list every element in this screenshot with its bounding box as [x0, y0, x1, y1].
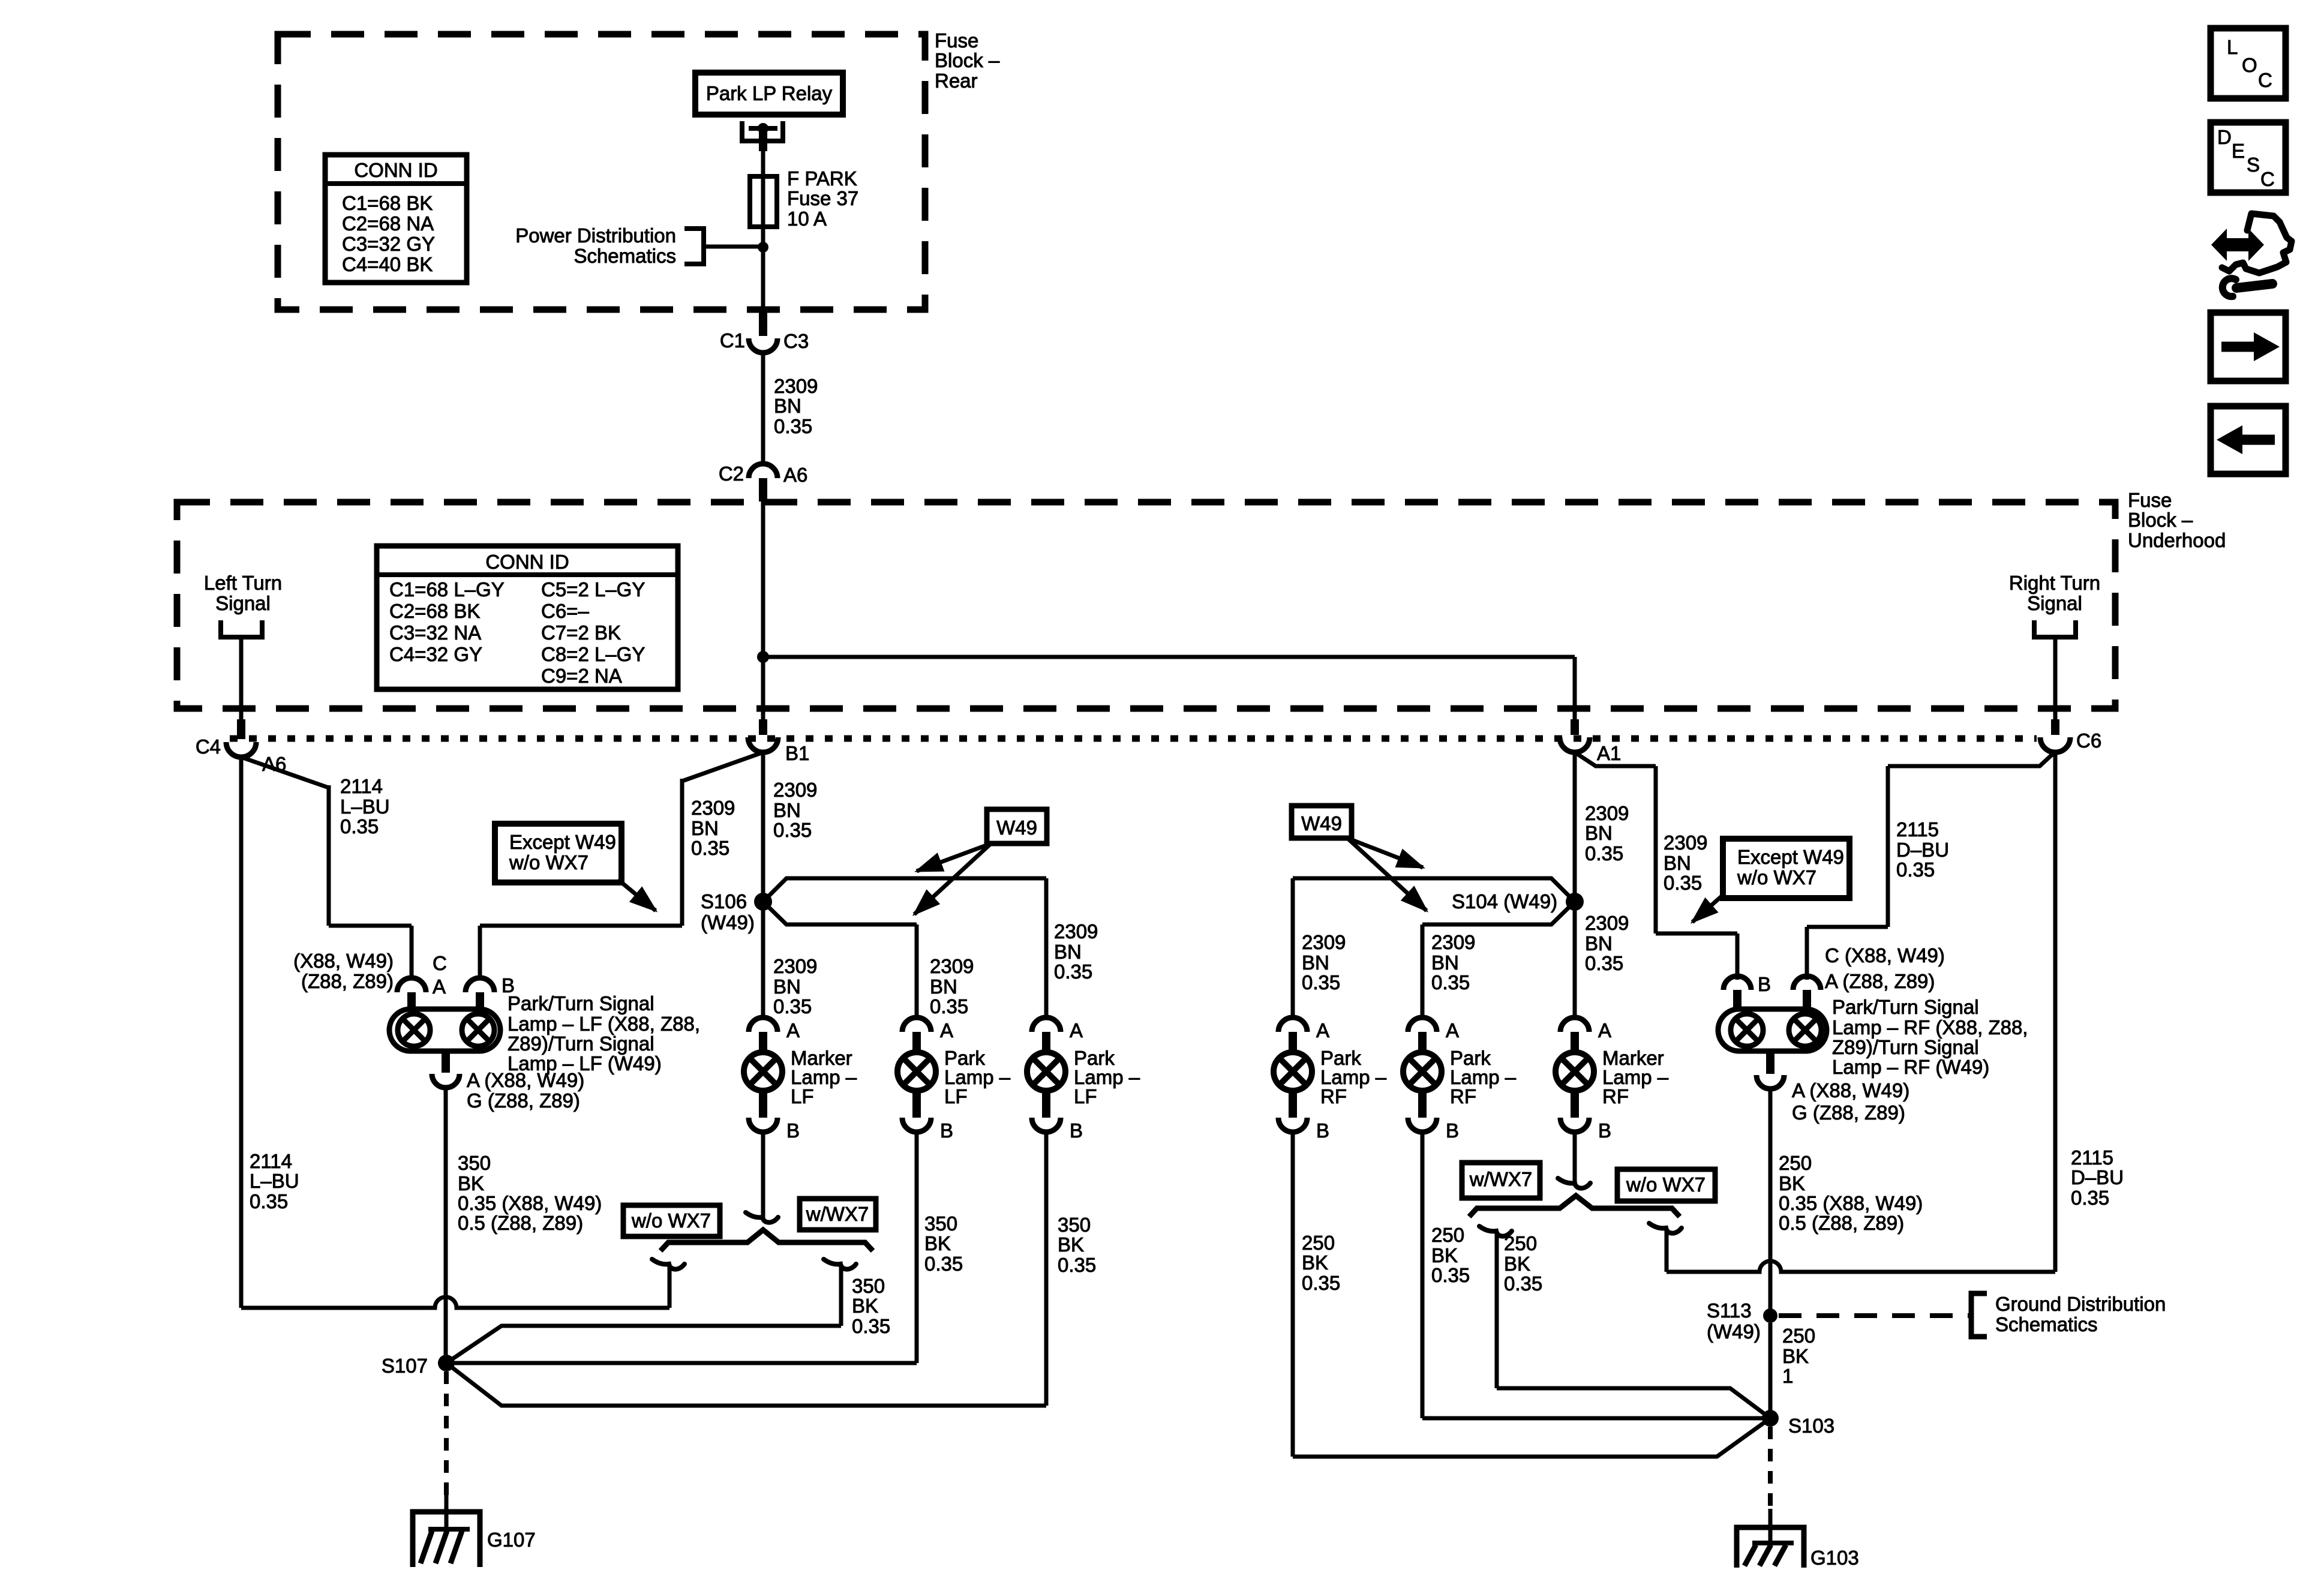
svg-text:w/o WX7: w/o WX7 [1626, 1173, 1706, 1196]
svg-text:0.5 (Z88, Z89): 0.5 (Z88, Z89) [1779, 1212, 1904, 1234]
svg-text:F PARK: F PARK [787, 167, 857, 190]
CONN ID table (underhood fuse block) [377, 546, 678, 689]
svg-text:Except W49: Except W49 [509, 831, 616, 853]
svg-text:BN: BN [1585, 822, 1613, 844]
svg-text:D–BU: D–BU [1896, 839, 1949, 861]
svg-text:2309: 2309 [1664, 831, 1707, 854]
w/o WX7 box (right) [1617, 1169, 1715, 1201]
svg-text:B: B [1598, 1119, 1611, 1142]
wire S107 to w/WX7 path [446, 1326, 841, 1363]
svg-text:0.35: 0.35 [250, 1190, 288, 1212]
wire A1 down to S104 (2309 BN) [1573, 752, 1577, 902]
wire 2114 vertical to lamp [327, 785, 331, 926]
svg-text:E: E [2232, 140, 2245, 162]
wire w/WX7 right to S103 [1497, 1388, 1770, 1418]
svg-text:(X88, W49): (X88, W49) [293, 950, 394, 972]
wire clip w/WX7 (left) [824, 1259, 856, 1269]
ground G103 [1737, 1527, 1804, 1568]
svg-text:0.35: 0.35 [2071, 1187, 2109, 1209]
wire park RF 1 ground [1291, 1132, 1295, 1457]
wire C4 diagonal branch [241, 757, 329, 788]
wire S107 to park LF 1 [446, 1361, 917, 1365]
splice S107 [438, 1355, 455, 1371]
svg-text:Rear: Rear [935, 70, 978, 92]
svg-text:C: C [2260, 168, 2275, 190]
wire clip w/WX7 (right) [1479, 1226, 1512, 1236]
connector B park lamp LF 2 [1042, 1089, 1050, 1118]
svg-text:A: A [940, 1019, 953, 1041]
connector A of park-turn lamp LF (bottom) [442, 1051, 450, 1073]
svg-text:C4: C4 [196, 736, 221, 758]
W49 flag box (right) [1292, 806, 1352, 838]
svg-text:2309: 2309 [773, 779, 817, 801]
lamp RF filament left [1731, 1014, 1763, 1046]
connector A marker lamp RF [1560, 1017, 1589, 1032]
svg-text:0.35: 0.35 [852, 1315, 890, 1337]
svg-text:A: A [1446, 1019, 1459, 1041]
wire bus down to A1 [1573, 657, 1577, 719]
wire B1 down to S106 (2309 BN) [761, 752, 765, 902]
wire marker LF down to option brace [761, 1132, 765, 1218]
svg-text:0.35: 0.35 [1504, 1272, 1542, 1295]
wire clip w/o WX7 (left) [652, 1259, 684, 1269]
connector B marker lamp LF [759, 1089, 767, 1118]
svg-text:0.35: 0.35 [1431, 1264, 1470, 1286]
svg-text:L–BU: L–BU [250, 1170, 299, 1192]
svg-text:2309: 2309 [930, 955, 974, 977]
svg-text:Schematics: Schematics [574, 245, 676, 267]
svg-text:0.35: 0.35 [1896, 858, 1935, 881]
svg-text:C3=32 NA: C3=32 NA [389, 622, 481, 644]
Park LP Relay box [695, 73, 843, 115]
svg-text:Lamp – LF (X88, Z88,: Lamp – LF (X88, Z88, [508, 1013, 700, 1035]
svg-text:(W49): (W49) [701, 911, 755, 933]
connector A1 [1571, 719, 1579, 735]
svg-text:w/o WX7: w/o WX7 [631, 1209, 711, 1232]
svg-text:BN: BN [1664, 852, 1691, 874]
junction dot main bus [757, 651, 769, 663]
park lamp RF 2 bulb [1403, 1052, 1442, 1091]
connector B park lamp RF 1 [1289, 1089, 1297, 1118]
svg-text:A: A [1598, 1019, 1611, 1041]
connector A park lamp RF 2 [1408, 1017, 1437, 1032]
svg-text:350: 350 [458, 1152, 491, 1174]
svg-text:C: C [2258, 69, 2272, 91]
svg-text:BN: BN [930, 975, 957, 998]
svg-text:S106: S106 [701, 890, 747, 912]
wire S104 upper collector to park lamp RF 1 [1293, 878, 1575, 902]
splice S104 (W49) [1566, 893, 1584, 911]
svg-text:0.5 (Z88, Z89): 0.5 (Z88, Z89) [458, 1212, 583, 1234]
svg-text:BN: BN [773, 975, 801, 998]
wire end clip (marker LF) [746, 1212, 778, 1223]
svg-text:B: B [1446, 1119, 1459, 1142]
svg-text:0.35: 0.35 [1058, 1254, 1096, 1276]
park/turn signal lamp LF body [389, 1009, 500, 1051]
w/WX7 box (right) [1462, 1163, 1540, 1198]
connector B of park-turn lamp LF [466, 978, 494, 992]
wire 2115 to lamp terminal C (RF) [1807, 925, 1888, 929]
svg-text:Ground Distribution: Ground Distribution [1995, 1293, 2166, 1315]
svg-text:0.35: 0.35 [1431, 971, 1470, 993]
svg-text:C: C [433, 952, 447, 974]
wire 2309 branch vertical [680, 779, 684, 926]
wire C6 diagonal branch [1888, 752, 2055, 766]
svg-text:1: 1 [1782, 1365, 1793, 1387]
svg-text:2309: 2309 [1302, 931, 1346, 953]
wire park LF 2 ground [1044, 1132, 1049, 1406]
wire w/o WX7 path down [668, 1266, 672, 1308]
relay contact symbol [740, 121, 744, 143]
Power Distribution Schematics bracket [684, 229, 704, 264]
svg-text:(W49): (W49) [1707, 1320, 1761, 1343]
wire clip w/o WX7 (right) [1649, 1223, 1682, 1233]
wire S104 lower collector to park lamp RF 2 [1422, 902, 1575, 924]
svg-text:Park LP Relay: Park LP Relay [706, 82, 833, 104]
svg-text:0.35 (X88, W49): 0.35 (X88, W49) [1779, 1192, 1923, 1214]
svg-text:C4=40 BK: C4=40 BK [342, 253, 433, 275]
svg-text:2114: 2114 [250, 1150, 292, 1172]
svg-text:BN: BN [773, 799, 801, 821]
svg-text:A (X88, W49): A (X88, W49) [1792, 1079, 1909, 1101]
connector C/A of park-turn lamp RF [1793, 976, 1821, 990]
svg-text:Except W49: Except W49 [1737, 846, 1844, 868]
connector A park lamp LF 2 [1032, 1017, 1061, 1032]
svg-text:BK: BK [1058, 1233, 1084, 1256]
connector C1/C3 [759, 311, 767, 336]
Fuse Block - Underhood dashed enclosure [177, 502, 2115, 709]
wire branch to lamp terminal B (RF) [1656, 932, 1737, 936]
svg-text:A: A [433, 975, 446, 998]
LOC icon box [2211, 28, 2286, 98]
connector B park lamp RF 2 [1418, 1089, 1427, 1118]
svg-text:S107: S107 [382, 1355, 428, 1377]
svg-text:C6: C6 [2076, 730, 2101, 752]
connector A of park-turn lamp RF (bottom) [1766, 1051, 1774, 1074]
svg-text:A (X88, W49): A (X88, W49) [467, 1069, 584, 1091]
svg-text:S103: S103 [1788, 1415, 1834, 1437]
svg-text:2115: 2115 [1896, 818, 1939, 840]
wire B1 diagonal branch [682, 752, 763, 781]
connector A marker lamp LF [749, 1017, 777, 1032]
connector B park lamp LF 1 [912, 1089, 921, 1118]
svg-text:L–BU: L–BU [340, 795, 390, 818]
svg-text:BK: BK [458, 1172, 484, 1194]
svg-text:Signal: Signal [2027, 592, 2082, 614]
wire S107 to park LF 2 [446, 1363, 1046, 1406]
svg-text:A: A [1070, 1019, 1083, 1041]
svg-text:B: B [1316, 1119, 1329, 1142]
svg-text:C2=68 BK: C2=68 BK [389, 600, 480, 622]
svg-text:0.35: 0.35 [774, 415, 812, 437]
svg-text:250: 250 [1302, 1232, 1335, 1254]
svg-text:Lamp – RF (X88, Z88,: Lamp – RF (X88, Z88, [1832, 1016, 2028, 1038]
connector A park lamp LF 1 [902, 1017, 931, 1032]
svg-text:0.35: 0.35 [1302, 1272, 1340, 1294]
wire left turn signal to C4 [239, 637, 244, 719]
marker lamp LF bulb [744, 1052, 782, 1091]
w/WX7 box (left) [800, 1199, 876, 1230]
svg-text:0.35 (X88, W49): 0.35 (X88, W49) [458, 1192, 602, 1214]
svg-text:2309: 2309 [1054, 920, 1098, 942]
svg-text:C1=68 BK: C1=68 BK [342, 192, 433, 214]
svg-text:BK: BK [1782, 1345, 1809, 1367]
svg-text:0.35: 0.35 [691, 837, 729, 859]
dashed reference to ground distribution [1779, 1313, 1969, 1318]
CONN ID table (rear fuse block) [325, 155, 467, 283]
wire 2114 horizontal with crossover [241, 1297, 669, 1308]
wire C6 down (2115 D-BU) [2053, 752, 2058, 1272]
wire right turn signal to C6 [2053, 637, 2058, 719]
svg-text:B: B [1758, 973, 1771, 995]
splice S113 (W49) [1763, 1308, 1777, 1323]
svg-text:BN: BN [774, 395, 801, 417]
svg-text:BK: BK [1504, 1253, 1530, 1275]
connector B marker lamp RF [1571, 1089, 1579, 1118]
svg-text:BN: BN [1302, 951, 1329, 974]
svg-text:LF: LF [1074, 1085, 1097, 1107]
w/o WX7 box (left) [623, 1205, 720, 1236]
wire S113 to S103 (250 BK 1) [1768, 1323, 1773, 1418]
wire S103 to ground G103 (dashed) [1768, 1427, 1773, 1509]
svg-text:Block –: Block – [2128, 509, 2193, 531]
svg-text:RF: RF [1320, 1085, 1347, 1107]
svg-text:0.35: 0.35 [1302, 971, 1340, 993]
svg-text:BK: BK [924, 1232, 951, 1254]
svg-text:0.35: 0.35 [1585, 952, 1623, 974]
wire end clip (marker RF) [1558, 1178, 1590, 1188]
svg-text:w/WX7: w/WX7 [806, 1203, 869, 1225]
arrow from Except box (right) [1692, 895, 1723, 922]
svg-text:BN: BN [1054, 941, 1082, 963]
svg-text:LF: LF [944, 1085, 968, 1107]
park lamp LF 2 bulb [1027, 1052, 1065, 1091]
svg-text:w/o WX7: w/o WX7 [509, 851, 588, 873]
DESC icon box [2211, 122, 2286, 193]
lamp LF filament left [398, 1014, 430, 1046]
ground distribution bracket [1971, 1293, 1987, 1337]
Fuse Block - Rear dashed enclosure [278, 34, 925, 310]
svg-text:A1: A1 [1597, 742, 1621, 764]
svg-text:C1=68 L–GY: C1=68 L–GY [389, 578, 505, 601]
svg-text:w/WX7: w/WX7 [1469, 1168, 1533, 1190]
svg-text:Z89)/Turn Signal: Z89)/Turn Signal [1832, 1036, 1979, 1058]
svg-text:O: O [2242, 54, 2257, 76]
svg-text:250: 250 [1779, 1152, 1812, 1174]
wire S104 to marker lamp RF [1573, 902, 1577, 1017]
svg-text:Block –: Block – [935, 49, 1000, 71]
svg-text:C7=2 BK: C7=2 BK [541, 622, 621, 644]
svg-text:RF: RF [1450, 1085, 1476, 1107]
park lamp LF 1 bulb [897, 1052, 936, 1091]
svg-text:Park/Turn Signal: Park/Turn Signal [1832, 996, 1979, 1018]
svg-text:C3: C3 [783, 330, 809, 352]
wire branch to lamp terminal B [480, 924, 682, 928]
svg-text:(Z88, Z89): (Z88, Z89) [301, 970, 394, 992]
wire C2 to B1 (main feed) [761, 499, 765, 719]
svg-text:250: 250 [1504, 1232, 1537, 1254]
svg-text:Fuse 37: Fuse 37 [787, 187, 858, 209]
svg-text:CONN ID: CONN ID [485, 551, 569, 573]
wire 2309 right branch vertical [1654, 766, 1658, 933]
service icon double arrow [2223, 238, 2252, 251]
wire relay to fuse [759, 128, 767, 151]
lamp LF filament right [462, 1014, 494, 1046]
connector A park lamp RF 1 [1278, 1017, 1307, 1032]
svg-text:BK: BK [1431, 1244, 1458, 1266]
svg-text:2114: 2114 [340, 775, 383, 797]
svg-text:0.35: 0.35 [1664, 872, 1702, 894]
svg-text:S: S [2247, 154, 2260, 176]
wire 2115 vertical [1886, 766, 1890, 927]
svg-text:B: B [940, 1119, 953, 1142]
svg-text:G (Z88, Z89): G (Z88, Z89) [467, 1089, 580, 1112]
svg-text:0.35: 0.35 [1054, 960, 1092, 983]
svg-text:0.35: 0.35 [924, 1253, 963, 1275]
svg-text:350: 350 [1058, 1214, 1091, 1236]
wire park RF 2 ground to S103 [1421, 1132, 1425, 1418]
wire lamp LF ground (350 BK) [444, 1088, 448, 1363]
svg-text:S104 (W49): S104 (W49) [1452, 890, 1557, 912]
svg-text:w/o WX7: w/o WX7 [1737, 866, 1816, 888]
svg-text:Lamp – RF (W49): Lamp – RF (W49) [1832, 1056, 1989, 1078]
wire fuse to junction [761, 227, 765, 316]
svg-text:BK: BK [852, 1295, 878, 1317]
svg-text:G107: G107 [487, 1529, 536, 1551]
wire S107 to ground G107 (dashed) [444, 1371, 449, 1495]
wire C4 down (2114 L-BU) [239, 757, 244, 1308]
svg-text:Fuse: Fuse [2128, 489, 2172, 511]
left arrow icon box [2211, 406, 2286, 474]
svg-text:C2=68 NA: C2=68 NA [342, 212, 434, 235]
svg-text:A (Z88, Z89): A (Z88, Z89) [1825, 970, 1935, 992]
lamp RF filament right [1789, 1014, 1821, 1046]
svg-text:W49: W49 [996, 816, 1037, 839]
svg-text:BK: BK [1302, 1251, 1328, 1274]
svg-text:C2: C2 [719, 463, 744, 485]
svg-text:A: A [1316, 1019, 1329, 1041]
Except W49 w/o WX7 box (right) [1723, 839, 1849, 898]
svg-text:BN: BN [1585, 932, 1613, 954]
svg-text:2309: 2309 [773, 955, 817, 977]
svg-text:Signal: Signal [215, 592, 271, 614]
svg-text:C4=32 GY: C4=32 GY [389, 643, 482, 665]
svg-text:Z89)/Turn Signal: Z89)/Turn Signal [508, 1032, 654, 1055]
option brace w/WX7 - w/o WX7 (right) [1469, 1196, 1680, 1217]
harness dotted line [230, 736, 2037, 742]
svg-text:Power Distribution: Power Distribution [515, 224, 676, 247]
svg-text:BN: BN [1431, 951, 1459, 974]
svg-text:LF: LF [791, 1085, 814, 1107]
svg-text:2309: 2309 [1585, 802, 1629, 824]
svg-text:Left Turn: Left Turn [204, 572, 282, 594]
ground G107 [413, 1512, 480, 1567]
svg-text:2309: 2309 [1585, 912, 1629, 934]
connector C6 [2051, 719, 2059, 735]
W49 arrow lower (left) [914, 843, 991, 914]
svg-text:C1: C1 [720, 329, 745, 352]
svg-text:2309: 2309 [691, 797, 735, 819]
svg-text:S113: S113 [1707, 1299, 1752, 1322]
svg-text:Park/Turn Signal: Park/Turn Signal [508, 992, 654, 1014]
wire S106 lower collector to park lamp 1 [763, 902, 917, 924]
svg-text:BK: BK [1779, 1172, 1805, 1194]
Right Turn Signal terminal bracket [2034, 620, 2076, 637]
service icon outline shape [2222, 214, 2292, 273]
wire to lamp terminal C [329, 924, 412, 928]
wire w/o WX7 path down (right) [1665, 1230, 1669, 1272]
svg-text:10 A: 10 A [787, 208, 827, 230]
wire S106 to marker lamp LF [761, 902, 765, 1017]
right arrow icon box [2211, 313, 2286, 381]
Except W49 w/o WX7 box (left) [495, 824, 621, 882]
svg-text:Right Turn: Right Turn [2009, 572, 2100, 594]
wire lamp RF ground (250 BK) [1768, 1089, 1773, 1316]
svg-text:2115: 2115 [2071, 1146, 2113, 1169]
svg-text:250: 250 [1782, 1325, 1815, 1347]
svg-text:0.35: 0.35 [930, 995, 968, 1017]
svg-text:0.35: 0.35 [340, 815, 379, 837]
fuse F PARK Fuse 37 10 A [750, 176, 777, 227]
W49 arrow upper (right) [1347, 838, 1423, 867]
wire park LF 1 ground [915, 1132, 919, 1363]
wire S106 upper collector to park lamp 2 [763, 878, 1046, 902]
wire A1 diagonal branch [1575, 752, 1656, 766]
svg-text:C6=–: C6=– [541, 600, 589, 622]
svg-text:2309: 2309 [774, 375, 818, 397]
connector B1 [759, 719, 767, 735]
connector C4/A6 [237, 719, 245, 739]
svg-text:W49: W49 [1301, 812, 1342, 834]
svg-text:G103: G103 [1810, 1547, 1859, 1569]
svg-text:C (X88, W49): C (X88, W49) [1825, 944, 1945, 966]
connector B of park-turn lamp RF [1724, 976, 1751, 990]
wire w/WX7 path down [839, 1266, 843, 1326]
svg-text:L: L [2227, 36, 2238, 58]
svg-text:B: B [786, 1119, 800, 1142]
wire main bus across underhood box [763, 655, 1575, 659]
service icon wrench [2236, 284, 2272, 288]
wire marker RF down to option brace [1573, 1132, 1577, 1184]
wire w/WX7 path down (right) [1495, 1233, 1499, 1388]
svg-text:350: 350 [924, 1212, 957, 1235]
wire 2309 BN 0.35 (C3 to C2) [761, 353, 765, 464]
W49 arrow upper (left) [917, 843, 991, 871]
svg-text:0.35: 0.35 [1585, 842, 1623, 864]
svg-text:250: 250 [1431, 1224, 1464, 1246]
svg-text:B: B [1070, 1119, 1083, 1142]
W49 arrow lower (right) [1347, 838, 1427, 911]
svg-text:C8=2 L–GY: C8=2 L–GY [541, 643, 645, 665]
option brace w/o WX7 - w/WX7 (left) [660, 1230, 873, 1251]
svg-text:BN: BN [691, 817, 719, 839]
park/turn signal lamp RF body [1718, 1009, 1827, 1051]
svg-text:C9=2 NA: C9=2 NA [541, 665, 622, 687]
splice S103 [1762, 1410, 1779, 1427]
svg-text:CONN ID: CONN ID [354, 159, 437, 181]
Left Turn Signal terminal bracket [221, 620, 262, 637]
svg-text:G (Z88, Z89): G (Z88, Z89) [1792, 1101, 1905, 1124]
connector C/A of park-turn lamp LF [397, 978, 426, 992]
svg-text:0.35: 0.35 [773, 819, 812, 841]
svg-text:Schematics: Schematics [1995, 1313, 2098, 1335]
svg-text:0.35: 0.35 [773, 995, 812, 1017]
svg-text:C3=32 GY: C3=32 GY [342, 233, 435, 255]
park lamp RF 1 bulb [1274, 1052, 1312, 1091]
junction dot power feed [758, 242, 768, 253]
svg-text:Fuse: Fuse [935, 29, 978, 52]
svg-text:B1: B1 [785, 742, 809, 764]
